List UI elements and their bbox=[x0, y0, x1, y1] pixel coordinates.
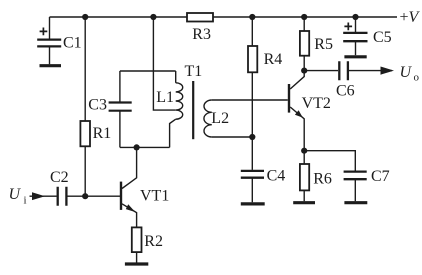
svg-text:C4: C4 bbox=[267, 168, 286, 185]
wire: tank bottom edge bbox=[120, 146, 170, 148]
svg-text:C2: C2 bbox=[50, 169, 69, 186]
ground bar under R6 bbox=[293, 201, 315, 204]
arrow: VT2 emitter bbox=[295, 110, 303, 117]
capacitor C3 bbox=[109, 103, 132, 111]
ground bar under C5 bbox=[344, 55, 366, 58]
capacitor C6 bbox=[339, 61, 348, 80]
ground bar under C1 bbox=[40, 64, 62, 67]
svg-text:C5: C5 bbox=[373, 29, 392, 46]
wire: emitter node to R6 bbox=[303, 151, 305, 164]
svg-text:+V: +V bbox=[400, 9, 421, 26]
inductor L1 bbox=[176, 83, 183, 119]
ground bar under C7 bbox=[344, 201, 367, 204]
resistor R6 bbox=[300, 164, 309, 190]
capacitor C1 polarity + bbox=[40, 28, 48, 36]
resistor R4 bbox=[248, 46, 257, 72]
svg-text:R6: R6 bbox=[313, 171, 332, 188]
transistor VT2 collector bbox=[290, 71, 304, 89]
wire: L1 upper lead bbox=[175, 71, 177, 83]
svg-text:C1: C1 bbox=[63, 35, 82, 52]
resistor R1 bbox=[80, 121, 90, 146]
node: rail junction R1 branch bbox=[82, 14, 88, 20]
svg-text:C3: C3 bbox=[88, 97, 107, 114]
svg-text:C6: C6 bbox=[336, 82, 355, 99]
wire: L2 top to VT2 base bbox=[212, 99, 288, 101]
transistor VT1 base bar bbox=[120, 182, 122, 210]
svg-text:C7: C7 bbox=[371, 168, 390, 185]
wire: R6 to ground bbox=[303, 190, 305, 201]
svg-text:R3: R3 bbox=[192, 26, 211, 43]
arrow: VT1 emitter bbox=[126, 204, 135, 212]
wire: emitter node to C7 bbox=[304, 151, 355, 171]
ground bar under R2 bbox=[125, 262, 148, 265]
node: VT2 emitter junction bbox=[301, 148, 307, 154]
resistor R2 bbox=[132, 227, 142, 252]
svg-text:o: o bbox=[414, 72, 420, 84]
wire: C4 to ground bbox=[251, 178, 253, 203]
capacitor C5 polarity + bbox=[344, 23, 352, 31]
wire: input lead bbox=[30, 195, 57, 197]
node: junction R1 / base line bbox=[82, 193, 88, 199]
wire: R4 lower lead bbox=[251, 72, 253, 137]
node: VT2 collector junction bbox=[301, 68, 307, 74]
wire: C2 to VT1 base bbox=[66, 195, 120, 197]
wire: C5 to ground bbox=[355, 41, 357, 55]
svg-text:U: U bbox=[400, 64, 413, 81]
svg-text:T1: T1 bbox=[185, 63, 203, 80]
svg-text:L2: L2 bbox=[211, 110, 229, 127]
capacitor C3 lower lead bbox=[119, 111, 121, 148]
transistor VT1 emitter bbox=[122, 204, 137, 228]
transformer T1 core bbox=[192, 81, 194, 139]
svg-text:U: U bbox=[9, 186, 22, 203]
wire: C1 to ground bbox=[49, 46, 51, 64]
wire: R5 lower lead bbox=[303, 56, 305, 71]
capacitor C1 bbox=[37, 40, 61, 47]
capacitor C5 bbox=[343, 33, 367, 41]
node: rail junction R4 branch bbox=[249, 14, 255, 20]
capacitor C2 bbox=[58, 187, 67, 206]
node: rail junction R5 branch bbox=[301, 14, 307, 20]
svg-text:VT1: VT1 bbox=[140, 188, 169, 205]
svg-text:R4: R4 bbox=[264, 51, 283, 68]
wire: R4 upper lead bbox=[251, 17, 253, 46]
inductor L2 bbox=[204, 100, 212, 137]
capacitor C3 upper lead bbox=[119, 71, 121, 102]
ground bar under C4 bbox=[241, 202, 265, 205]
wire: C5 upper lead bbox=[355, 17, 357, 33]
wire: C1 branch from rail bbox=[49, 17, 51, 39]
wire: tank top edge bbox=[120, 70, 176, 72]
wire: R5 upper lead bbox=[303, 17, 305, 31]
wire: C6 to output bbox=[348, 70, 392, 72]
wire: R1 branch lower bbox=[84, 146, 86, 196]
transistor VT1 collector bbox=[122, 147, 137, 188]
svg-text:R5: R5 bbox=[314, 36, 333, 53]
svg-text:R1: R1 bbox=[93, 125, 112, 142]
wire: L1 lower lead bbox=[170, 119, 176, 147]
resistor R5 bbox=[300, 31, 309, 56]
wire: junction to C4 bbox=[251, 137, 253, 170]
transistor VT2 emitter bbox=[290, 107, 304, 151]
wire: collector node to C6 bbox=[304, 70, 338, 72]
wire: L2 bottom to R4/C4 junction bbox=[212, 136, 253, 138]
svg-text:VT2: VT2 bbox=[302, 95, 331, 112]
svg-text:i: i bbox=[24, 195, 27, 207]
wire: R2 to ground bbox=[136, 252, 138, 262]
node: tank / VT1 collector junction bbox=[134, 144, 140, 150]
resistor R3 bbox=[187, 13, 213, 22]
svg-text:L1: L1 bbox=[156, 89, 174, 106]
node: rail junction C5 branch bbox=[352, 14, 358, 20]
node: rail junction T1 tap branch bbox=[150, 14, 156, 20]
capacitor C7 bbox=[344, 172, 367, 180]
capacitor C4 bbox=[241, 171, 264, 178]
wire: top supply rail, right segment bbox=[213, 16, 397, 18]
svg-text:R2: R2 bbox=[144, 233, 163, 250]
wire: top supply rail, left segment bbox=[50, 16, 188, 18]
transistor VT2 base bar bbox=[288, 84, 290, 113]
arrow: input signal bbox=[32, 192, 45, 200]
arrow: output bbox=[381, 67, 395, 75]
wire: C7 to ground bbox=[354, 179, 356, 201]
node: R4 / L2 / C4 junction bbox=[249, 134, 255, 140]
wire: R1 branch upper bbox=[84, 17, 86, 121]
wire: rail to L1 tap bbox=[153, 17, 175, 110]
